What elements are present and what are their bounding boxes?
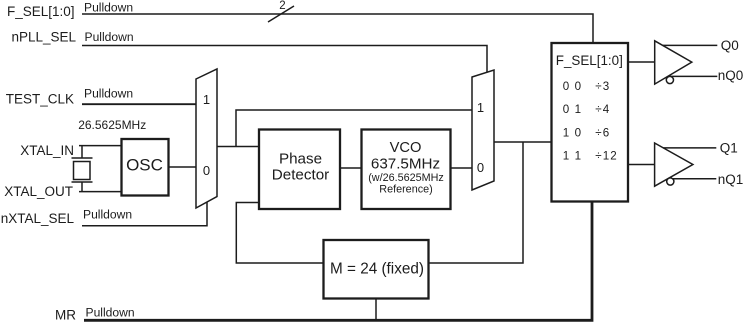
- svg-text:1 1: 1 1: [563, 149, 582, 162]
- svg-text:0: 0: [477, 160, 484, 175]
- svg-text:Pulldown: Pulldown: [83, 208, 132, 222]
- svg-text:Reference): Reference): [379, 184, 432, 196]
- svg-text:(w/26.5625MHz: (w/26.5625MHz: [368, 172, 444, 184]
- svg-text:nXTAL_SEL: nXTAL_SEL: [1, 211, 75, 226]
- svg-text:VCO: VCO: [390, 140, 422, 156]
- svg-text:26.5625MHz: 26.5625MHz: [78, 118, 146, 132]
- svg-text:0 1: 0 1: [563, 103, 582, 116]
- svg-text:Detector: Detector: [272, 167, 329, 184]
- svg-text:M = 24 (fixed): M = 24 (fixed): [330, 261, 424, 278]
- svg-text:÷12: ÷12: [595, 149, 617, 162]
- svg-text:1 0: 1 0: [563, 126, 582, 139]
- svg-text:OSC: OSC: [126, 156, 163, 175]
- svg-text:XTAL_IN: XTAL_IN: [20, 143, 74, 158]
- svg-text:Q1: Q1: [720, 141, 738, 156]
- svg-text:Pulldown: Pulldown: [84, 87, 133, 101]
- svg-text:637.5MHz: 637.5MHz: [371, 156, 440, 173]
- svg-text:MR: MR: [55, 308, 76, 323]
- svg-text:Pulldown: Pulldown: [84, 1, 133, 15]
- svg-text:Pulldown: Pulldown: [86, 306, 135, 320]
- svg-text:1: 1: [477, 100, 484, 115]
- svg-text:F_SEL[1:0]: F_SEL[1:0]: [7, 4, 75, 19]
- svg-text:÷3: ÷3: [595, 80, 610, 93]
- svg-text:nQ0: nQ0: [718, 68, 744, 83]
- svg-text:2: 2: [279, 0, 285, 12]
- svg-text:nPLL_SEL: nPLL_SEL: [11, 30, 76, 45]
- svg-text:Pulldown: Pulldown: [85, 30, 134, 44]
- svg-text:Q0: Q0: [721, 38, 739, 53]
- svg-text:F_SEL[1:0]: F_SEL[1:0]: [556, 53, 623, 68]
- svg-text:÷4: ÷4: [595, 103, 610, 116]
- svg-text:XTAL_OUT: XTAL_OUT: [4, 184, 73, 199]
- svg-text:1: 1: [203, 92, 210, 107]
- svg-text:Phase: Phase: [279, 151, 322, 168]
- svg-text:÷6: ÷6: [595, 126, 610, 139]
- svg-text:0 0: 0 0: [563, 80, 582, 93]
- svg-text:TEST_CLK: TEST_CLK: [6, 91, 74, 106]
- svg-text:0: 0: [203, 163, 210, 178]
- svg-text:nQ1: nQ1: [718, 172, 744, 187]
